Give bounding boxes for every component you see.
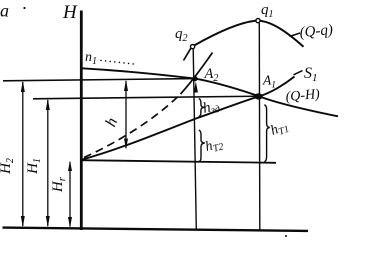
arrow up to A2 on drop line (h_zd dimension) (194, 81, 198, 92)
curve (Q-q) (195, 21, 304, 47)
tick before S1 label (294, 71, 303, 75)
svg-text:(Q-q): (Q-q) (299, 22, 334, 41)
tick before (Q-q) label (290, 33, 301, 37)
speck dot on bottom right (285, 235, 287, 237)
svg-text:H: H (62, 2, 78, 23)
bottom axis (abscissa) (3, 228, 309, 231)
level line H2 (through A2) (3, 79, 195, 81)
curve (Q-q) left tail (184, 48, 191, 60)
pump curve (Q-H) (82, 68, 338, 116)
dimension Hg (68, 161, 72, 228)
svg-text:a: a (0, 1, 9, 21)
dashed throttled system curve (through A2) (84, 97, 178, 158)
vertical axis H (80, 11, 83, 231)
point q1 (open circle) (256, 19, 260, 23)
system curve S1 (through A1) (82, 77, 295, 160)
point A1 (filled) (255, 93, 263, 99)
dimension H1 (46, 99, 50, 228)
point q2 (open circle) (191, 45, 195, 49)
svg-text:(Q-H): (Q-H) (285, 87, 321, 105)
solid end of dashed curve through A2 (181, 53, 213, 95)
speck dot near a (23, 7, 25, 9)
brace h_t2 (199, 130, 205, 162)
drop line from q1 through A1 (258, 23, 261, 230)
brace h_t1 (264, 105, 270, 162)
dotted leader from n1 to curve (100, 60, 134, 65)
brace h_zd (199, 99, 205, 117)
level line H1 (through A1) (33, 96, 259, 99)
level line Hg (static head) (80, 160, 276, 163)
dimension H2 (21, 81, 25, 228)
point A2 (filled) (192, 76, 197, 81)
dimension h (between H2 level and S1 curve) (124, 80, 128, 150)
drop line from q2 through A2 (193, 49, 196, 230)
